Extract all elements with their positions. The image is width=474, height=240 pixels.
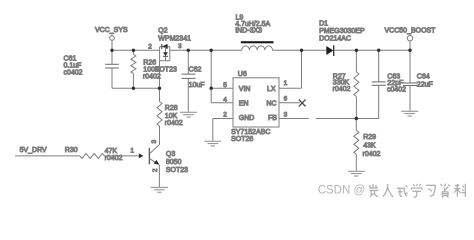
svg-text:U6: U6 xyxy=(238,71,247,78)
svg-text:10uF: 10uF xyxy=(189,82,205,89)
node R27 top junction xyxy=(355,49,358,52)
svg-text:8050: 8050 xyxy=(166,159,182,166)
svg-text:4: 4 xyxy=(223,97,227,104)
resistor R28 xyxy=(157,88,162,144)
svg-text:C62: C62 xyxy=(189,67,202,74)
svg-text:R29: R29 xyxy=(363,134,376,141)
svg-text:5: 5 xyxy=(223,82,227,89)
svg-text:SOT23: SOT23 xyxy=(166,167,188,174)
node VCC_SYS / C61 junction xyxy=(110,49,113,52)
label C62 value xyxy=(189,67,205,89)
wire FB pin segment xyxy=(279,118,309,120)
resistor R26 xyxy=(131,50,136,88)
label C64 value xyxy=(417,74,433,89)
svg-text:R30: R30 xyxy=(65,147,78,154)
ground below R29 xyxy=(348,171,365,176)
svg-text:10K: 10K xyxy=(165,113,178,120)
svg-text:2: 2 xyxy=(148,43,152,50)
watermark CSDN xyxy=(318,184,365,196)
svg-text:SOT23: SOT23 xyxy=(155,66,177,73)
label R27 value xyxy=(333,74,351,93)
svg-text:2: 2 xyxy=(223,112,227,119)
label Q3 xyxy=(166,151,188,174)
svg-text:VCC_SYS: VCC_SYS xyxy=(95,27,128,34)
svg-text:1: 1 xyxy=(284,80,288,87)
label R26 value xyxy=(143,60,161,81)
svg-text:1: 1 xyxy=(130,147,134,154)
node C63 top junction xyxy=(377,49,380,52)
capacitor C64 xyxy=(403,50,417,111)
node R26 top junction xyxy=(132,49,135,52)
svg-text:VIN: VIN xyxy=(239,86,251,93)
ground below Q3 xyxy=(151,187,168,192)
svg-text:EN: EN xyxy=(239,100,249,107)
svg-text:DO214AC: DO214AC xyxy=(319,35,351,42)
glyph 嵌 xyxy=(370,184,379,197)
svg-text:D1: D1 xyxy=(319,21,328,28)
svg-text:LX: LX xyxy=(267,86,276,93)
resistor R30 xyxy=(80,153,139,158)
svg-text:r0402: r0402 xyxy=(165,120,183,127)
wire L9 to D1 anode xyxy=(272,49,326,51)
svg-text:WPM2341: WPM2341 xyxy=(158,36,191,43)
node LX switch junction xyxy=(300,49,303,52)
wire LX pin to switch node xyxy=(279,50,302,88)
svg-text:C61: C61 xyxy=(64,56,77,63)
capacitor C61 xyxy=(105,50,119,88)
glyph 式 xyxy=(397,185,408,196)
node C62 top junction xyxy=(187,49,190,52)
svg-text:3: 3 xyxy=(178,43,182,50)
svg-text:r0402: r0402 xyxy=(105,155,123,162)
label R30 value xyxy=(65,147,123,162)
svg-text:Q3: Q3 xyxy=(166,151,175,158)
diode D1 PMEG3030EP xyxy=(326,45,333,56)
power symbol VCC_SYS xyxy=(110,34,115,51)
wire 5V_DRV input xyxy=(15,155,80,157)
wire Q2 gate xyxy=(159,61,161,89)
label L9 value xyxy=(235,14,270,34)
svg-text:5V_DRV: 5V_DRV xyxy=(20,147,47,154)
label Q2 xyxy=(155,28,191,74)
wire VIN drop from rail xyxy=(210,50,212,103)
wire to pin EN xyxy=(211,102,233,104)
wire Q2 drain to L9 xyxy=(170,49,242,51)
inductor L9 xyxy=(241,41,274,50)
transistor Q2 WPM2341 xyxy=(160,44,170,89)
label R28 value xyxy=(165,105,183,127)
node VCC50_BOOST tap junction xyxy=(408,49,411,52)
label D1 xyxy=(319,21,365,43)
svg-text:3: 3 xyxy=(284,112,288,119)
ground below C62 xyxy=(180,112,197,117)
svg-text:IND-3X3: IND-3X3 xyxy=(235,27,262,34)
glyph 习 xyxy=(426,185,435,196)
node FB divider junction xyxy=(355,117,358,120)
label C63 value xyxy=(387,74,406,94)
transistor Q3 8050 xyxy=(139,145,160,187)
svg-text:43K: 43K xyxy=(363,143,376,150)
wire VCC_SYS rail to Q2 source xyxy=(112,49,160,51)
svg-text:PMEG3030EP: PMEG3030EP xyxy=(319,28,365,35)
label R29 value xyxy=(363,134,381,158)
svg-text:CSDN @: CSDN @ xyxy=(318,184,365,196)
label U6 part number xyxy=(231,129,270,143)
glyph 资 xyxy=(441,184,450,198)
node VIN drop junction xyxy=(210,49,213,52)
svg-text:3: 3 xyxy=(151,140,158,144)
glyph 料 xyxy=(454,184,465,197)
svg-text:R28: R28 xyxy=(165,105,178,112)
wire FB node rail xyxy=(316,118,379,120)
power symbol VCC50_BOOST xyxy=(407,34,412,51)
wire gate rail xyxy=(112,87,160,89)
op-amp U6 SY7152ABC box xyxy=(233,78,279,127)
svg-text:C64: C64 xyxy=(417,74,430,81)
svg-text:c0402: c0402 xyxy=(64,70,83,77)
svg-text:r0402: r0402 xyxy=(333,86,351,93)
node Q2 gate / R28 junction xyxy=(158,87,161,90)
svg-text:GND: GND xyxy=(239,115,255,122)
ground below C64 xyxy=(401,111,418,116)
capacitor C63 xyxy=(372,50,386,118)
label C61 value xyxy=(64,56,83,77)
resistor R29 xyxy=(354,119,359,171)
wire D1 cathode to VCC50_BOOST tap xyxy=(335,49,410,51)
svg-text:2: 2 xyxy=(152,168,159,172)
watermark CJK glyph strokes xyxy=(370,184,466,198)
svg-text:NC: NC xyxy=(266,100,276,107)
capacitor C62 xyxy=(182,50,196,111)
svg-text:6: 6 xyxy=(284,96,288,103)
node VIN pin junction xyxy=(210,87,213,90)
ground below U6 xyxy=(204,141,221,146)
svg-text:SOT26: SOT26 xyxy=(231,136,253,143)
svg-text:FB: FB xyxy=(268,115,277,122)
no-connect X on NC pin xyxy=(279,100,306,107)
resistor R27 xyxy=(354,50,359,118)
glyph 学 xyxy=(411,184,422,197)
svg-text:Q2: Q2 xyxy=(158,28,167,35)
svg-text:c0402: c0402 xyxy=(387,86,406,93)
svg-text:r0402: r0402 xyxy=(363,151,381,158)
svg-text:VCC50_BOOST: VCC50_BOOST xyxy=(385,28,437,35)
wire GND pin to ground xyxy=(213,119,233,141)
glyph 入 xyxy=(383,184,393,197)
svg-text:22uF: 22uF xyxy=(417,81,433,88)
wire to pin VIN xyxy=(211,87,233,89)
node R26 bottom junction xyxy=(132,87,135,90)
svg-text:0.1uF: 0.1uF xyxy=(64,63,82,70)
svg-text:r0402: r0402 xyxy=(143,74,161,81)
